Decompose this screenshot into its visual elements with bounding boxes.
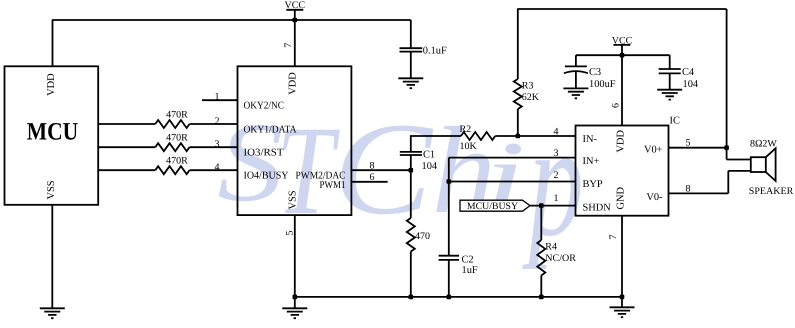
svg-text:NC/OR: NC/OR (545, 253, 576, 264)
svg-text:4: 4 (554, 126, 559, 137)
wire V0- (pin 8) to speaker bottom terminal (669, 171, 751, 194)
wire pin 1 stub (202, 99, 238, 101)
capacitor C4 (659, 55, 699, 90)
net flag MCU/BUSY (460, 200, 530, 212)
wire chip U1 pin 7 (294, 20, 296, 66)
resistor 470R (row A) (155, 120, 189, 128)
wire feedback drop (726, 9, 728, 148)
capacitor C3 (electrolytic) (564, 55, 616, 90)
svg-text:2: 2 (554, 170, 559, 181)
junction node R4/rail (539, 295, 544, 300)
svg-text:1: 1 (215, 92, 220, 103)
wire chip U1 pin 6 stub (351, 181, 387, 183)
wire chip U1 pin 8 to C1 node (351, 169, 410, 171)
svg-text:3: 3 (215, 139, 220, 150)
wire BYP (pin 2) (449, 181, 576, 183)
svg-text:8Ω2W: 8Ω2W (750, 138, 777, 149)
power VCC symbol 1 (285, 0, 306, 20)
wire C2 branch vertical (448, 158, 450, 256)
svg-text:8: 8 (370, 160, 375, 171)
resistor 470R (row C) (155, 166, 189, 174)
wire SHDN (pin 1) (530, 205, 576, 207)
wire VCC2 rail (576, 54, 670, 56)
svg-text:470: 470 (415, 231, 430, 242)
svg-text:4: 4 (215, 162, 220, 173)
wire amp pin 7 GND down (621, 216, 623, 297)
svg-text:1uF: 1uF (462, 265, 478, 276)
svg-text:62K: 62K (522, 92, 540, 103)
junction node 470/rail (409, 295, 414, 300)
svg-text:C4: C4 (682, 67, 695, 78)
junction node VCC2 (620, 53, 625, 58)
svg-text:VSS: VSS (46, 180, 57, 199)
svg-text:GND: GND (616, 187, 627, 210)
svg-text:470R: 470R (166, 109, 188, 120)
junction node C2/rail (447, 295, 452, 300)
wire IN- (pin 4) (518, 135, 576, 137)
svg-text:C2: C2 (462, 255, 474, 266)
wire MCU to R 470R row B (98, 146, 237, 148)
ground (MCU) (40, 308, 65, 318)
svg-text:470R: 470R (166, 132, 188, 143)
wire amp pin 6 (621, 55, 623, 125)
wire MCU VSS down (51, 205, 53, 308)
svg-text:S: S (217, 100, 283, 225)
ground (U1 VSS) (282, 308, 307, 318)
wire top feedback rail (518, 8, 727, 10)
svg-text:VDD: VDD (288, 72, 299, 95)
wire C1 to R2 row (411, 135, 518, 138)
svg-text:6: 6 (370, 172, 375, 183)
svg-text:3: 3 (554, 148, 559, 159)
resistor R2 (461, 132, 495, 140)
svg-text:OKY2/NC: OKY2/NC (244, 101, 285, 112)
svg-text:IO3/RST: IO3/RST (244, 148, 285, 159)
wire bottom ground rail (295, 296, 622, 298)
resistor 470 (407, 170, 430, 297)
svg-text:VSS: VSS (288, 190, 299, 209)
speaker LS1 (751, 148, 776, 181)
svg-text:10K: 10K (460, 141, 478, 152)
svg-text:C3: C3 (589, 67, 601, 78)
watermark STChip (217, 91, 583, 270)
svg-text:7: 7 (608, 235, 619, 240)
junction node SHDN/R4 (539, 203, 544, 208)
junction node IN+/BYP/C2 (447, 179, 452, 184)
power VCC symbol 2 (612, 35, 633, 55)
junction node R3/R2/IN- (516, 134, 521, 139)
svg-text:7: 7 (283, 43, 294, 48)
ground (bottom rail) (610, 297, 635, 317)
svg-text:MCU/BUSY: MCU/BUSY (467, 201, 518, 212)
svg-text:SHDN: SHDN (583, 202, 612, 213)
svg-text:2: 2 (215, 116, 220, 127)
capacitor C2 (439, 255, 478, 298)
svg-text:VDD: VDD (616, 130, 627, 153)
capacitor C1 (400, 136, 438, 172)
wire MCU to R 470R row C (98, 169, 237, 171)
wire V0+ (pin 5) (669, 147, 727, 149)
ground (C3) (563, 88, 588, 98)
svg-text:5: 5 (284, 231, 295, 236)
junction node V0+/feedback (724, 145, 729, 150)
svg-text:6: 6 (610, 103, 621, 108)
svg-text:IN-: IN- (583, 134, 598, 145)
svg-text:MCU: MCU (27, 119, 79, 146)
junction node bottom-left rail (293, 295, 298, 300)
svg-text:C: C (333, 96, 434, 242)
svg-text:V0+: V0+ (644, 145, 663, 156)
wire to speaker top terminal (727, 148, 751, 160)
ground (C4) (657, 90, 682, 100)
svg-text:104: 104 (683, 79, 699, 90)
svg-text:1: 1 (554, 193, 559, 204)
junction node VCC1 (293, 18, 298, 23)
svg-text:R2: R2 (460, 124, 472, 135)
svg-text:R3: R3 (522, 80, 534, 91)
wire MCU to R 470R row A (98, 123, 237, 125)
MCU block (5, 66, 99, 205)
svg-text:0.1uF: 0.1uF (423, 46, 447, 57)
svg-text:IC: IC (670, 115, 680, 126)
junction node C1/pin8/470 (409, 168, 414, 173)
svg-text:IO4/BUSY: IO4/BUSY (244, 171, 289, 182)
svg-text:470R: 470R (166, 155, 188, 166)
resistor 470R (row B) (155, 143, 189, 151)
capacitor 0.1uF (400, 20, 447, 78)
svg-text:VDD: VDD (46, 73, 57, 96)
svg-text:8: 8 (686, 184, 691, 195)
svg-text:V0-: V0- (646, 192, 663, 203)
amplifier chip U2 (576, 126, 669, 216)
wire VCC rail left (53, 19, 411, 21)
svg-text:100uF: 100uF (589, 79, 616, 90)
resistor R4 (537, 206, 576, 297)
svg-text:R4: R4 (545, 241, 557, 252)
svg-text:C1: C1 (423, 149, 435, 160)
chip U1 (voice chip) (238, 66, 352, 215)
wire MCU VDD to rail (52, 19, 54, 66)
wire chip U1 pin 5 down (294, 215, 296, 308)
svg-text:5: 5 (686, 137, 691, 148)
resistor R3 (514, 8, 540, 136)
junction node GND/rail (620, 295, 625, 300)
svg-text:OKY1/DATA: OKY1/DATA (244, 124, 297, 135)
ground (0.1uF) (398, 78, 423, 88)
svg-text:BYP: BYP (583, 179, 603, 190)
wire IN+ (pin 3) (449, 157, 576, 159)
svg-text:IN+: IN+ (583, 156, 600, 167)
svg-text:104: 104 (422, 161, 438, 172)
svg-text:SPEAKER: SPEAKER (749, 186, 794, 197)
svg-text:PWM1: PWM1 (320, 180, 346, 191)
